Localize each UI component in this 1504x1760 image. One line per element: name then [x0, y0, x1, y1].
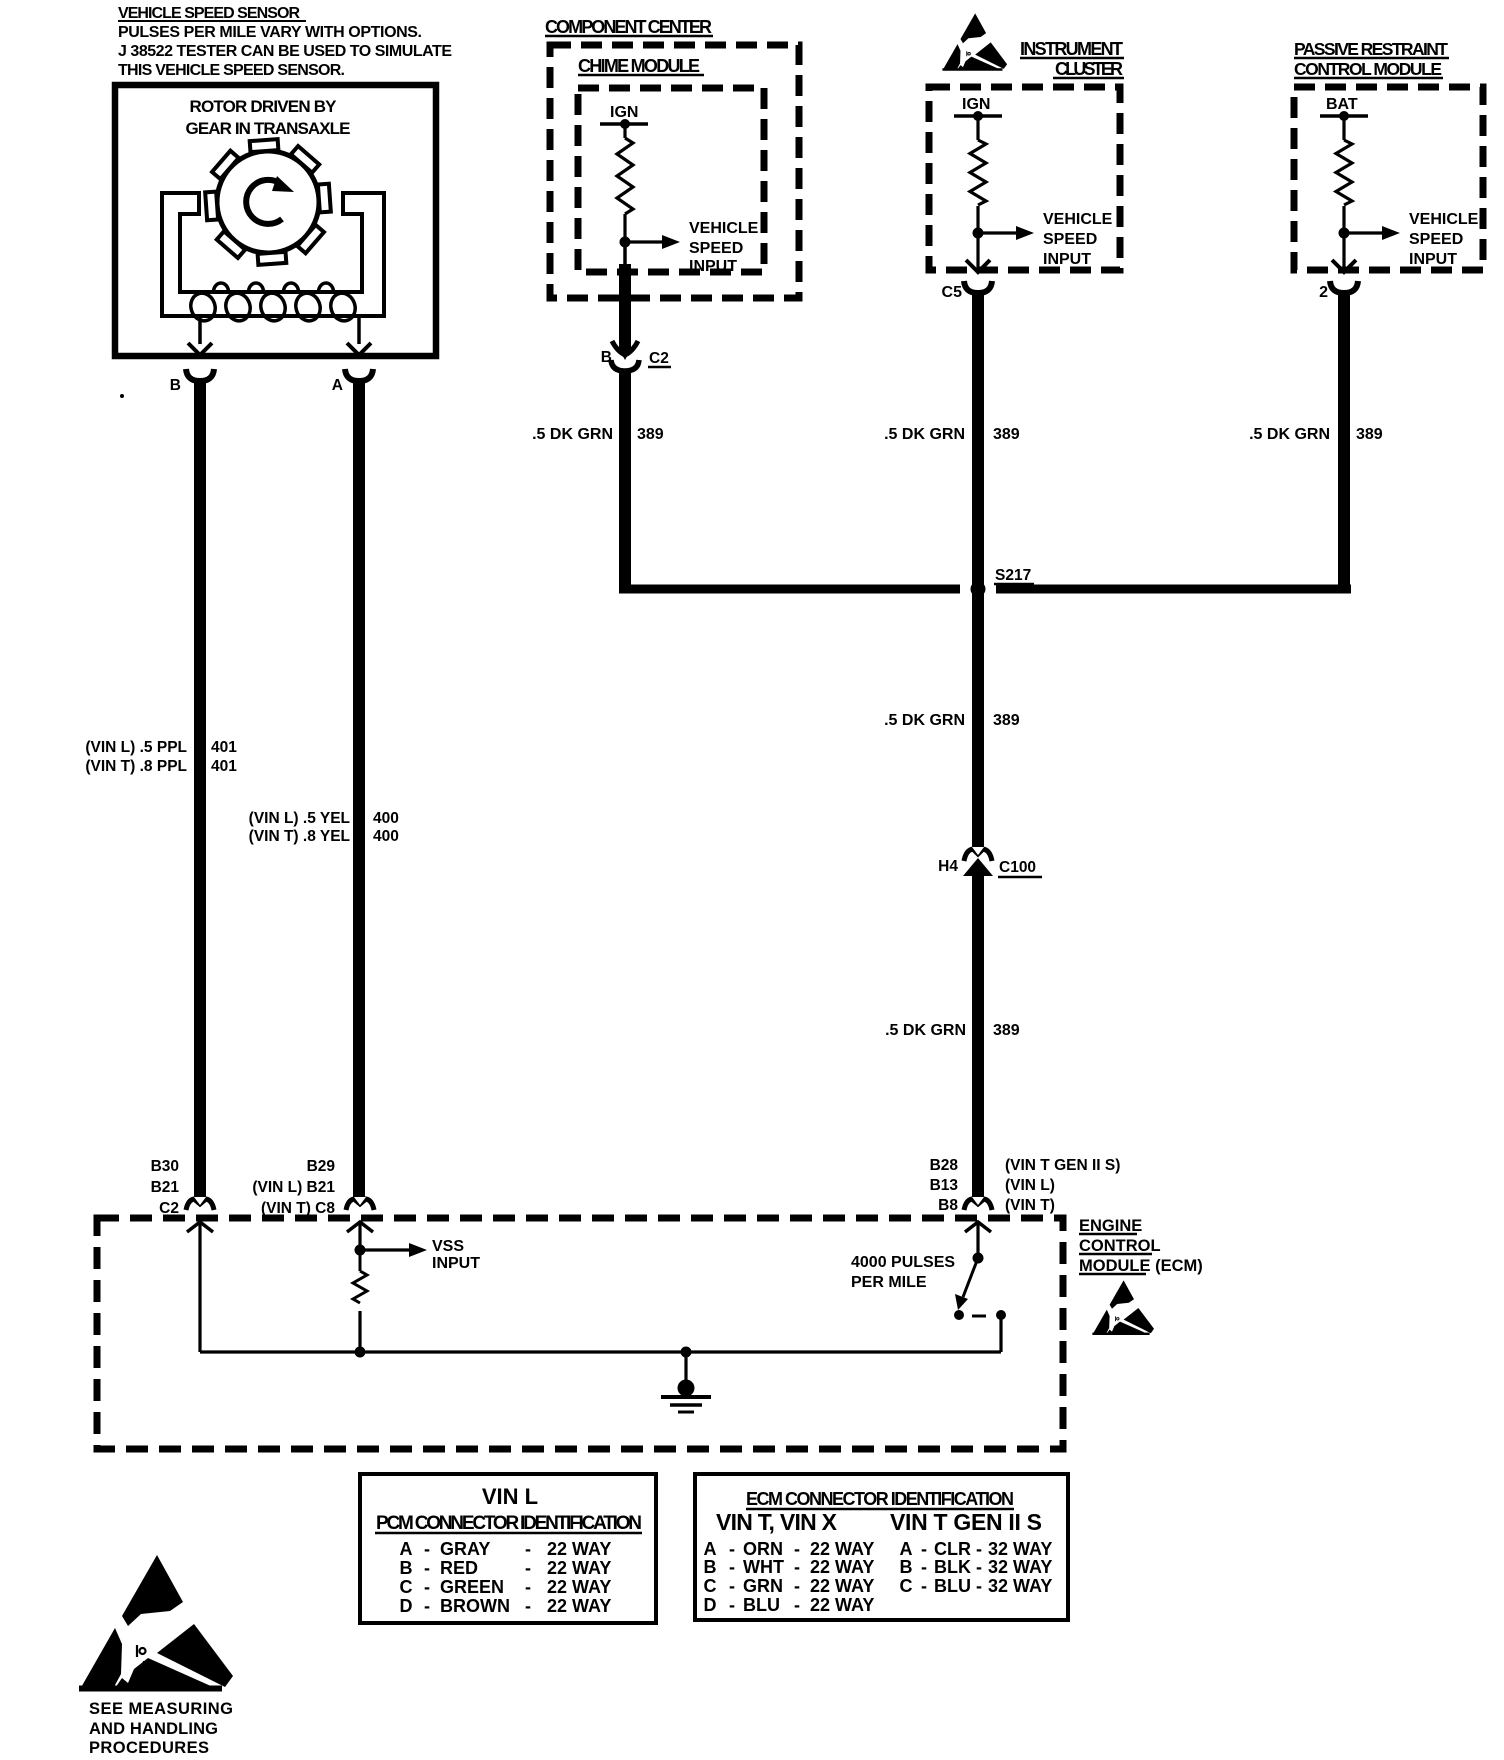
svg-text:PULSES PER MILE VARY WITH OPTI: PULSES PER MILE VARY WITH OPTIONS.	[118, 24, 422, 41]
svg-text:.5 DK GRN: .5 DK GRN	[884, 426, 965, 443]
svg-text:CONTROL MODULE: CONTROL MODULE	[1294, 59, 1442, 79]
arrow entry B29	[347, 1222, 373, 1232]
svg-text:CONTROL: CONTROL	[1079, 1237, 1161, 1255]
svg-text:.5 DK GRN: .5 DK GRN	[884, 712, 965, 729]
svg-text:IGN: IGN	[610, 104, 638, 121]
svg-text:GRAY: GRAY	[440, 1539, 490, 1559]
svg-text:CLR: CLR	[934, 1539, 971, 1559]
sensor enclosure box	[115, 85, 436, 356]
svg-text:PCM CONNECTOR IDENTIFICATION: PCM CONNECTOR IDENTIFICATION	[376, 1513, 642, 1534]
wire chime output thin	[623, 242, 627, 273]
node resistor to common	[355, 1347, 366, 1358]
svg-text:-: -	[921, 1576, 927, 1596]
table PCM connector identification	[360, 1474, 656, 1623]
svg-text:32 WAY: 32 WAY	[988, 1576, 1052, 1596]
svg-text:-: -	[976, 1539, 982, 1559]
svg-text:.5 DK GRN: .5 DK GRN	[885, 1022, 966, 1039]
svg-text:(VIN T) .8 PPL: (VIN T) .8 PPL	[85, 758, 187, 775]
svg-text:COMPONENT CENTER: COMPONENT CENTER	[545, 17, 712, 37]
svg-text:32 WAY: 32 WAY	[988, 1557, 1052, 1577]
svg-text:VIN T, VIN X: VIN T, VIN X	[716, 1509, 838, 1535]
svg-text:22 WAY: 22 WAY	[547, 1577, 611, 1597]
svg-text:VIN T GEN II S: VIN T GEN II S	[890, 1509, 1042, 1535]
svg-text:SPEED: SPEED	[1043, 231, 1097, 248]
wire common horizontal	[200, 1350, 1001, 1353]
svg-text:INSTRUMENT: INSTRUMENT	[1020, 39, 1123, 59]
instrument cluster	[929, 39, 1124, 301]
wire 401 PPL sensor B to ECM	[194, 378, 206, 1199]
wire passive output with exit arrow	[1342, 233, 1345, 270]
connector C2 female cup	[611, 360, 639, 371]
svg-text:-: -	[921, 1557, 927, 1577]
wire C100 to ECM B28	[972, 868, 984, 1199]
svg-text:22 WAY: 22 WAY	[547, 1539, 611, 1559]
svg-text:-: -	[976, 1557, 982, 1577]
svg-text:VSS: VSS	[432, 1238, 464, 1255]
svg-text:(VIN L): (VIN L)	[1005, 1177, 1055, 1194]
arrow entry B28	[965, 1222, 991, 1232]
wire sensor terminal A lead	[357, 316, 361, 344]
stray mark	[120, 394, 124, 398]
svg-text:-: -	[794, 1576, 800, 1596]
esd symbol bottom left	[79, 1555, 233, 1692]
svg-text:INPUT: INPUT	[689, 258, 737, 275]
component center dashed box	[550, 45, 799, 298]
svg-text:C2: C2	[649, 350, 669, 367]
svg-text:D: D	[704, 1595, 717, 1615]
wire C2 to splice S217	[619, 369, 631, 594]
svg-text:-: -	[729, 1539, 735, 1559]
svg-text:VEHICLE SPEED SENSOR: VEHICLE SPEED SENSOR	[118, 5, 300, 22]
svg-text:SPEED: SPEED	[1409, 231, 1463, 248]
svg-text:389: 389	[993, 426, 1020, 443]
svg-text:C: C	[704, 1576, 717, 1596]
svg-text:389: 389	[1356, 426, 1383, 443]
note: vehicle speed sensor description	[118, 5, 452, 79]
node IGN junction	[973, 111, 983, 121]
svg-text:22 WAY: 22 WAY	[810, 1595, 874, 1615]
wire B29 internal to node	[358, 1224, 361, 1250]
svg-text:SPEED: SPEED	[689, 240, 743, 257]
svg-text:(VIN T): (VIN T)	[1005, 1197, 1055, 1214]
svg-text:H4: H4	[938, 858, 958, 875]
svg-text:VEHICLE: VEHICLE	[1409, 211, 1479, 228]
svg-text:GREEN: GREEN	[440, 1577, 504, 1597]
svg-text:C5: C5	[942, 284, 963, 301]
connector C100 female cup on upper wire	[964, 849, 992, 861]
svg-text:22 WAY: 22 WAY	[547, 1596, 611, 1616]
rotation arrow	[246, 180, 282, 224]
svg-text:ROTOR DRIVEN BY: ROTOR DRIVEN BY	[190, 97, 338, 116]
svg-text:389: 389	[637, 426, 664, 443]
arrow vehicle speed input	[625, 240, 664, 243]
svg-text:B21: B21	[151, 1179, 180, 1196]
svg-text:.5 DK GRN: .5 DK GRN	[532, 426, 613, 443]
wire splice bus left segment	[620, 585, 960, 594]
svg-text:IGN: IGN	[962, 96, 990, 113]
resistor cluster pull-up	[976, 116, 979, 140]
svg-text:MODULE (ECM): MODULE (ECM)	[1079, 1257, 1203, 1275]
esd symbol instrument cluster	[942, 13, 1007, 70]
svg-text:INPUT: INPUT	[1409, 251, 1457, 268]
svg-text:PER MILE: PER MILE	[851, 1274, 927, 1291]
svg-text:(VIN T) .8 YEL: (VIN T) .8 YEL	[249, 828, 350, 845]
svg-text:VEHICLE: VEHICLE	[689, 220, 759, 237]
BAT feed line	[1320, 114, 1368, 118]
svg-text:B28: B28	[930, 1157, 959, 1174]
connector C100 male arrow up	[963, 858, 993, 876]
connector cup pin B	[186, 369, 214, 381]
svg-text:(VIN T) C8: (VIN T) C8	[261, 1200, 335, 1217]
svg-text:401: 401	[211, 739, 237, 756]
svg-text:BLK: BLK	[934, 1557, 971, 1577]
svg-text:-: -	[424, 1539, 430, 1559]
svg-text:J 38522 TESTER CAN BE USED TO: J 38522 TESTER CAN BE USED TO SIMULATE	[118, 43, 452, 60]
svg-text:-: -	[729, 1576, 735, 1596]
svg-text:22 WAY: 22 WAY	[810, 1557, 874, 1577]
svg-text:B: B	[170, 377, 181, 394]
node passive VSS junction	[1339, 228, 1350, 239]
ECM dashed box	[97, 1218, 1063, 1449]
svg-text:-: -	[525, 1558, 531, 1578]
svg-text:ENGINE: ENGINE	[1079, 1217, 1142, 1235]
resistor chime pull-up	[623, 124, 626, 138]
svg-text:VIN L: VIN L	[482, 1484, 538, 1509]
svg-text:GRN: GRN	[743, 1576, 783, 1596]
svg-text:BROWN: BROWN	[440, 1596, 510, 1616]
connector cup ECM B28 entry	[964, 1199, 992, 1210]
svg-text:-: -	[794, 1595, 800, 1615]
svg-text:22 WAY: 22 WAY	[547, 1558, 611, 1578]
wire B28 internal to switch	[976, 1224, 979, 1258]
svg-text:RED: RED	[440, 1558, 478, 1578]
svg-text:C2: C2	[159, 1200, 179, 1217]
passive restraint dashed box	[1294, 87, 1483, 270]
svg-text:(VIN L) B21: (VIN L) B21	[252, 1179, 335, 1196]
wire cluster output with exit arrow	[976, 233, 979, 270]
svg-text:22 WAY: 22 WAY	[810, 1539, 874, 1559]
passive restraint control module	[1294, 39, 1483, 301]
resistor ECM input	[359, 1250, 362, 1271]
svg-text:B29: B29	[307, 1158, 336, 1175]
svg-text:GEAR IN TRANSAXLE: GEAR IN TRANSAXLE	[186, 119, 351, 138]
svg-text:-: -	[525, 1577, 531, 1597]
chime module dashed box	[578, 88, 764, 272]
svg-text:C100: C100	[999, 859, 1036, 876]
svg-text:32 WAY: 32 WAY	[988, 1539, 1052, 1559]
svg-text:-: -	[424, 1596, 430, 1616]
svg-text:INPUT: INPUT	[1043, 251, 1091, 268]
svg-text:PROCEDURES: PROCEDURES	[89, 1739, 209, 1757]
svg-text:(VIN L) .5 PPL: (VIN L) .5 PPL	[85, 739, 187, 756]
svg-text:A: A	[400, 1539, 413, 1559]
node chime VSS junction	[620, 237, 631, 248]
svg-text:B30: B30	[151, 1158, 179, 1175]
esd symbols	[79, 13, 1154, 1757]
connector cup ECM B30 entry	[186, 1199, 214, 1210]
arrow VSS input	[360, 1248, 411, 1251]
rotor gear	[202, 136, 334, 268]
wire chime to C2 thick	[619, 264, 631, 352]
connector cup pin A	[345, 369, 373, 381]
svg-text:A: A	[704, 1539, 717, 1559]
switch 4000 ppm	[973, 1253, 984, 1264]
node ground junction	[681, 1347, 692, 1358]
node splice S217	[971, 582, 986, 597]
svg-text:WHT: WHT	[743, 1557, 784, 1577]
svg-text:2: 2	[1319, 284, 1328, 301]
svg-text:400: 400	[373, 810, 399, 827]
arrow entry B30	[187, 1222, 213, 1232]
svg-text:INPUT: INPUT	[432, 1255, 480, 1272]
svg-text:-: -	[525, 1596, 531, 1616]
svg-text:B: B	[704, 1557, 717, 1577]
ground	[684, 1352, 687, 1381]
svg-text:BLU: BLU	[743, 1595, 780, 1615]
svg-text:VEHICLE: VEHICLE	[1043, 211, 1113, 228]
svg-text:BLU: BLU	[934, 1576, 971, 1596]
svg-text:.5 DK GRN: .5 DK GRN	[1249, 426, 1330, 443]
svg-text:B8: B8	[938, 1197, 958, 1214]
IGN feed line	[600, 122, 648, 126]
svg-text:22 WAY: 22 WAY	[810, 1576, 874, 1596]
svg-text:-: -	[729, 1595, 735, 1615]
arrow vehicle speed input	[978, 231, 1018, 234]
wire through splice vertical	[972, 585, 984, 852]
instrument cluster dashed box	[929, 87, 1120, 270]
svg-text:389: 389	[993, 1022, 1020, 1039]
vehicle speed sensor box	[115, 85, 436, 394]
svg-text:4000 PULSES: 4000 PULSES	[851, 1254, 955, 1271]
svg-text:-: -	[424, 1558, 430, 1578]
svg-text:ECM CONNECTOR IDENTIFICATION: ECM CONNECTOR IDENTIFICATION	[746, 1489, 1014, 1509]
svg-text:A: A	[900, 1539, 913, 1559]
wire passive pin2 down to S217	[1338, 290, 1350, 594]
svg-text:BAT: BAT	[1326, 96, 1358, 113]
svg-text:-: -	[794, 1539, 800, 1559]
svg-text:A: A	[332, 377, 343, 394]
svg-text:S217: S217	[995, 567, 1031, 584]
wire 400 YEL sensor A to ECM	[353, 378, 365, 1199]
svg-text:-: -	[525, 1539, 531, 1559]
svg-text:AND HANDLING: AND HANDLING	[89, 1720, 218, 1738]
pickup yoke core	[162, 193, 384, 316]
svg-text:-: -	[424, 1577, 430, 1597]
svg-text:-: -	[794, 1557, 800, 1577]
wires and splice	[85, 264, 1382, 1217]
svg-text:389: 389	[993, 712, 1020, 729]
svg-text:C: C	[900, 1576, 913, 1596]
node IGN junction	[620, 119, 630, 129]
connector C2 male arrow	[620, 350, 631, 360]
svg-text:-: -	[729, 1557, 735, 1577]
wire splice bus right segment	[996, 585, 1351, 594]
svg-text:400: 400	[373, 828, 399, 845]
svg-text:CLUSTER: CLUSTER	[1055, 59, 1123, 79]
table ECM connector identification	[695, 1474, 1068, 1620]
svg-text:D: D	[400, 1596, 413, 1616]
wire sensor terminal B lead	[198, 316, 202, 344]
svg-text:PASSIVE RESTRAINT: PASSIVE RESTRAINT	[1294, 39, 1448, 59]
svg-text:B: B	[900, 1557, 913, 1577]
connector cup ECM B29 entry	[346, 1199, 374, 1210]
svg-text:-: -	[921, 1539, 927, 1559]
engine control module	[97, 1217, 1203, 1449]
wire cluster C5 down to S217	[972, 290, 984, 585]
connector cup pin 2	[1330, 281, 1358, 293]
IGN feed line	[954, 114, 1002, 118]
svg-text:B: B	[400, 1558, 413, 1578]
svg-text:B13: B13	[930, 1177, 959, 1194]
svg-text:THIS VEHICLE SPEED SENSOR.: THIS VEHICLE SPEED SENSOR.	[118, 62, 345, 79]
svg-text:ORN: ORN	[743, 1539, 783, 1559]
resistor passive restraint pull-up	[1342, 116, 1345, 140]
wire B30 internal	[198, 1224, 201, 1352]
wire switch to common	[999, 1315, 1002, 1352]
svg-text:(VIN L) .5 YEL: (VIN L) .5 YEL	[249, 810, 350, 827]
svg-text:B: B	[601, 349, 612, 366]
svg-text:C: C	[400, 1577, 413, 1597]
pickup coil L1	[187, 283, 358, 324]
svg-text:-: -	[976, 1576, 982, 1596]
connector cup C5	[964, 281, 992, 293]
node VSS junction	[355, 1245, 366, 1256]
component center / chime module	[545, 17, 799, 298]
node cluster VSS junction	[973, 228, 984, 239]
svg-text:CHIME MODULE: CHIME MODULE	[578, 56, 700, 76]
svg-text:401: 401	[211, 758, 237, 775]
svg-text:(VIN T GEN II S): (VIN T GEN II S)	[1005, 1157, 1120, 1174]
arrow vehicle speed input	[1344, 231, 1384, 234]
node BAT junction	[1339, 111, 1349, 121]
tables	[360, 1474, 1068, 1623]
esd symbol ECM	[1092, 1280, 1154, 1335]
svg-text:SEE MEASURING: SEE MEASURING	[89, 1700, 233, 1718]
